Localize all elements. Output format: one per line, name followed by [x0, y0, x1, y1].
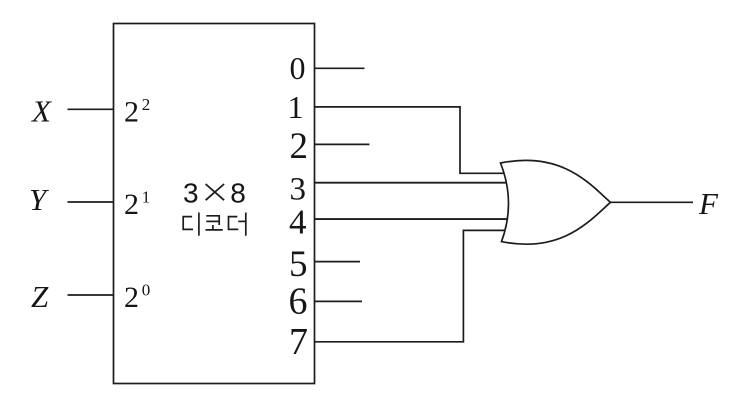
svg-text:8: 8	[230, 178, 246, 209]
svg-text:3: 3	[183, 178, 199, 209]
decoder U1 (3x8 decoder box)	[114, 24, 315, 384]
wire output 6 stub	[315, 300, 363, 302]
wire output 4 to OR gate	[315, 218, 513, 220]
svg-text:1: 1	[142, 188, 151, 207]
wire X input	[68, 108, 114, 110]
svg-text:0: 0	[142, 281, 151, 300]
svg-text:Y: Y	[29, 182, 49, 217]
label 디코더 (decoder, drawn strokes)	[183, 213, 246, 236]
svg-text:2: 2	[124, 96, 139, 129]
svg-text:1: 1	[288, 89, 304, 125]
wire Y input	[68, 201, 114, 203]
svg-text:6: 6	[289, 281, 308, 323]
svg-text:5: 5	[289, 244, 308, 285]
svg-text:2: 2	[290, 126, 309, 167]
svg-text:Z: Z	[31, 279, 49, 314]
wire output 1 to OR gate top input	[315, 107, 513, 173]
wire F output	[611, 201, 694, 203]
wire output 3 to OR gate	[315, 182, 513, 184]
wire output 0 stub	[315, 67, 365, 69]
wire output 7 to OR gate bottom input	[315, 230, 513, 341]
svg-text:7: 7	[289, 321, 308, 363]
svg-text:4: 4	[289, 203, 307, 242]
svg-text:2: 2	[142, 95, 151, 114]
svg-text:0: 0	[290, 50, 306, 86]
wire output 5 stub	[315, 261, 361, 263]
svg-text:X: X	[30, 94, 52, 129]
wire output 2 stub	[315, 143, 370, 145]
svg-text:2: 2	[124, 188, 139, 221]
svg-text:2: 2	[124, 281, 139, 314]
wire Z input	[68, 294, 114, 296]
svg-text:F: F	[698, 186, 719, 221]
or-gate U2	[501, 160, 611, 244]
